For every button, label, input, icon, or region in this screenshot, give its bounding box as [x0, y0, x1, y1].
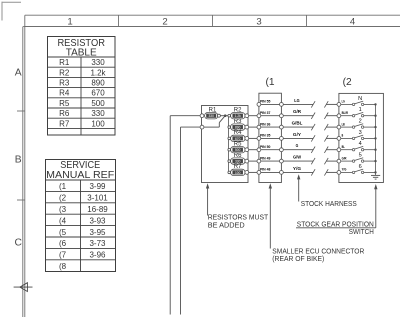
svg-text:3-99: 3-99 [89, 182, 106, 191]
svg-text:3-95: 3-95 [89, 228, 106, 237]
svg-text:670: 670 [91, 89, 105, 98]
wire R6 to ECU connector [249, 160, 258, 162]
zone number 2 [162, 17, 167, 28]
wire R3 to ECU connector [249, 126, 258, 128]
svg-text:LB: LB [342, 121, 345, 126]
left bus wire connecting R2-R7 [227, 116, 229, 173]
svg-text:TABLE: TABLE [66, 48, 97, 59]
svg-text:Y/G: Y/G [342, 167, 347, 172]
smaller ECU connector body [259, 93, 282, 182]
svg-text:B: B [15, 155, 22, 166]
svg-text:B: B [342, 133, 344, 138]
resistor network box outline [202, 106, 249, 183]
annotation: RESISTORS MUST BE ADDED with leader arrow [206, 183, 269, 229]
svg-text:3-101: 3-101 [87, 194, 108, 203]
svg-text:BL: BL [342, 144, 346, 149]
svg-text:100: 100 [91, 119, 105, 128]
harness wire G/R [283, 109, 337, 119]
harness wire Y/G [283, 166, 337, 176]
svg-text:1.2k: 1.2k [235, 114, 241, 118]
connector U1 label (1 [266, 77, 275, 88]
svg-text:(2: (2 [343, 77, 352, 88]
svg-text:890: 890 [91, 79, 105, 88]
connector 1 pin row PIN 35 [257, 133, 283, 141]
svg-text:(3: (3 [59, 205, 67, 214]
svg-text:SWITCH: SWITCH [349, 227, 374, 236]
harness wire G/W [283, 155, 337, 165]
switch contact row B position 3 [337, 130, 377, 140]
harness wire G [283, 143, 337, 153]
connector (2 label [343, 77, 352, 88]
svg-text:16-89: 16-89 [87, 205, 108, 214]
svg-text:(7: (7 [59, 251, 67, 260]
svg-text:C: C [14, 237, 22, 248]
svg-text:6: 6 [359, 164, 362, 170]
svg-text:A: A [15, 67, 22, 78]
connector 1 pin row PIN 48 [257, 167, 283, 175]
svg-text:R4: R4 [59, 89, 70, 98]
node: network input terminal 2 [200, 125, 204, 129]
svg-text:LG: LG [294, 98, 300, 103]
harness wire LG [283, 98, 337, 108]
svg-text:R2: R2 [59, 68, 70, 77]
zone letter A [15, 67, 22, 78]
svg-text:BL/R: BL/R [342, 110, 348, 115]
harness wire G/Y [283, 132, 337, 142]
svg-text:330: 330 [209, 114, 215, 118]
svg-text:(5: (5 [59, 228, 67, 237]
svg-text:PIN 37: PIN 37 [260, 110, 271, 115]
svg-text:2: 2 [162, 17, 167, 28]
annotation: SMALLER ECU CONNECTOR (REAR OF BIKE) with leader arrow [269, 183, 365, 263]
svg-text:3: 3 [256, 17, 261, 28]
svg-text:500: 500 [235, 148, 241, 152]
svg-text:BE ADDED: BE ADDED [208, 220, 245, 229]
connector 1 pin row PIN 55 [257, 99, 283, 107]
svg-text:(8: (8 [59, 262, 67, 271]
switch contact row LG position N [337, 96, 377, 106]
svg-text:R5: R5 [59, 99, 70, 108]
svg-text:3-73: 3-73 [89, 239, 106, 248]
svg-text:G/Y: G/Y [293, 132, 302, 137]
resistor R5 value 500 [228, 141, 249, 153]
svg-text:3-96: 3-96 [89, 251, 106, 260]
annotation: STOCK HARNESS with leader arrow [297, 174, 357, 208]
resistor R7 value 100 [228, 164, 249, 175]
switch contact row G/R position 5 [337, 153, 377, 163]
sheet corner mark (top-left) [2, 2, 22, 21]
svg-text:LG: LG [342, 99, 345, 104]
svg-text:1: 1 [359, 107, 362, 113]
svg-text:R3: R3 [59, 79, 70, 88]
zone letter C [14, 237, 22, 248]
svg-text:STOCK HARNESS: STOCK HARNESS [301, 199, 357, 208]
resistor R6 value 330 [228, 153, 249, 164]
resistor table [48, 37, 116, 136]
wire from junction node to off-page bottom-left [181, 127, 201, 314]
svg-text:(4: (4 [59, 216, 67, 225]
junction node of R1/R2 bus [224, 114, 227, 117]
harness wire G/BL [283, 121, 337, 131]
svg-text:330: 330 [235, 160, 241, 164]
wire from R1 input to off-page bottom-left [170, 116, 200, 315]
svg-text:890: 890 [235, 126, 241, 130]
svg-text:(1: (1 [266, 77, 275, 88]
svg-text:N: N [358, 96, 362, 102]
svg-text:(6: (6 [59, 239, 67, 248]
zone letter B [15, 155, 22, 166]
svg-text:100: 100 [235, 171, 241, 175]
connector 1 pin row PIN 36 [257, 121, 283, 129]
switch common bus wire [375, 104, 377, 175]
wire R1 to junction [220, 115, 229, 117]
connector 1 pin row PIN 50 [257, 144, 283, 152]
svg-text:(2: (2 [59, 194, 67, 203]
wire R7 to ECU connector [249, 171, 258, 173]
svg-text:(REAR OF BIKE): (REAR OF BIKE) [272, 254, 324, 263]
zone number 1 [67, 17, 72, 28]
switch contact row Y/G position 6 [337, 164, 377, 174]
svg-text:G/R: G/R [293, 109, 302, 114]
connector 1 pin row PIN 49 [257, 155, 283, 163]
svg-text:1: 1 [67, 17, 72, 28]
svg-text:PIN 35: PIN 35 [260, 133, 271, 138]
svg-text:500: 500 [91, 99, 105, 108]
svg-text:3: 3 [359, 130, 362, 136]
svg-text:PIN 50: PIN 50 [260, 144, 271, 149]
svg-text:R6: R6 [59, 109, 70, 118]
svg-text:330: 330 [91, 109, 105, 118]
svg-text:G: G [296, 143, 299, 148]
switch contact row BL position 4 [337, 141, 377, 151]
datum arrow marker on left border [14, 283, 33, 292]
svg-text:PIN 49: PIN 49 [260, 155, 271, 160]
annotation: STOCK GEAR POSITION SWITCH with leader arrow [296, 184, 378, 236]
top ruler ticks [119, 15, 307, 26]
ground symbol [371, 175, 380, 179]
switch contact row LB position 2 [337, 119, 377, 129]
svg-text:R1: R1 [59, 58, 70, 67]
wire R4 to ECU connector [249, 137, 258, 139]
svg-text:G/W: G/W [293, 155, 302, 160]
svg-text:4: 4 [350, 17, 356, 28]
svg-text:PIN 55: PIN 55 [260, 99, 271, 104]
svg-text:MANUAL REF: MANUAL REF [46, 170, 114, 181]
gear position switch body [339, 93, 384, 182]
zone number 3 [256, 17, 261, 28]
zone number 4 [350, 17, 356, 28]
resistor R1 value 330 [205, 108, 221, 119]
svg-text:G/R: G/R [342, 155, 347, 160]
wire junction to input terminal 2 (diagonal jog) [204, 116, 225, 127]
switch contact row BL/R position 1 [337, 107, 377, 117]
wire R2 to ECU connector [249, 115, 258, 117]
resistor R3 value 890 [228, 119, 249, 131]
service manual ref table [46, 160, 116, 272]
left ruler ticks [17, 111, 25, 200]
node: network input terminal 1 [200, 114, 204, 118]
connector 1 pin row PIN 37 [257, 110, 283, 118]
svg-text:Y/G: Y/G [293, 166, 301, 171]
svg-text:2: 2 [359, 119, 362, 125]
svg-text:R7: R7 [59, 119, 70, 128]
svg-text:1.2k: 1.2k [90, 68, 106, 77]
resistor R4 value 670 [228, 130, 249, 141]
svg-text:PIN 36: PIN 36 [260, 121, 271, 126]
svg-text:670: 670 [235, 137, 241, 141]
svg-text:G/BL: G/BL [292, 121, 303, 126]
svg-text:5: 5 [359, 153, 362, 159]
resistor R2 value 1.2k [228, 107, 249, 119]
wire R5 to ECU connector [249, 149, 258, 151]
svg-text:PIN 48: PIN 48 [260, 167, 271, 172]
svg-text:(1: (1 [59, 182, 67, 191]
svg-text:4: 4 [359, 141, 362, 147]
svg-text:330: 330 [91, 58, 105, 67]
svg-text:3-93: 3-93 [89, 216, 106, 225]
